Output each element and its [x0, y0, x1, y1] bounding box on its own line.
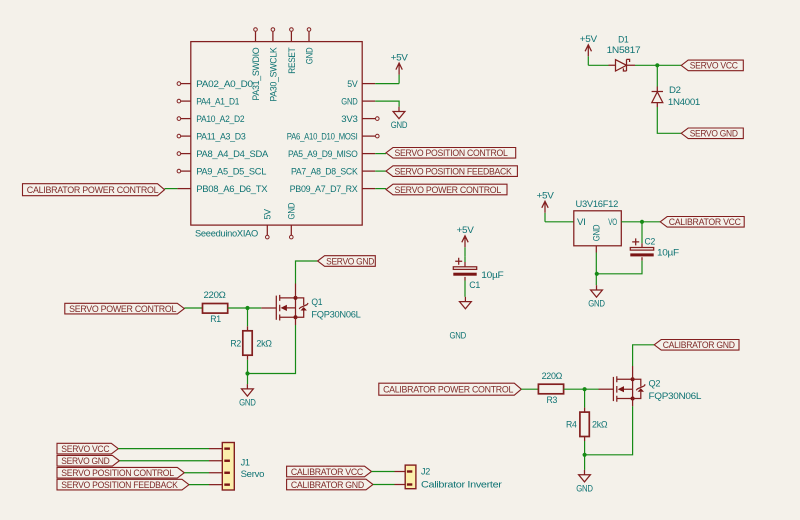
pin 3V3 unconnected end: [376, 117, 380, 121]
wire SERVO VCC to J1 pin 1: [118, 448, 209, 450]
svg-text:CALIBRATOR VCC: CALIBRATOR VCC: [291, 467, 364, 477]
pin PA02_A0_D0 unconnected end: [177, 82, 181, 86]
diode D1 1N5817 (schottky): [609, 59, 636, 71]
svg-text:GND: GND: [449, 330, 466, 341]
pin PA30_SWCLK stub (top): [272, 32, 274, 42]
wire C2 bottom to GND net: [596, 261, 642, 274]
svg-text:VI: VI: [577, 217, 586, 228]
global label CALIBRATOR POWER CONTROL (Q2): [379, 383, 522, 395]
svg-text:Q2: Q2: [649, 378, 661, 389]
transistor Q1 FQP30N06L: [276, 295, 308, 321]
svg-text:Servo: Servo: [241, 469, 265, 480]
pin C2 bottom stub: [641, 257, 643, 260]
svg-text:+5V: +5V: [391, 52, 409, 63]
svg-text:1N4001: 1N4001: [668, 97, 700, 108]
wire label to PB08 pin: [165, 188, 178, 190]
wire SCK pin to label: [375, 170, 386, 172]
pin R4 top stub: [584, 408, 586, 413]
svg-text:PA6_A10_D10_MOSI: PA6_A10_D10_MOSI: [287, 132, 358, 143]
svg-text:PA4_A1_D1: PA4_A1_D1: [196, 97, 239, 108]
svg-text:PB09_A7_D7_RX: PB09_A7_D7_RX: [290, 184, 359, 195]
pin Q1 gate stub: [261, 307, 276, 309]
svg-text:SERVO GND: SERVO GND: [690, 129, 739, 139]
svg-text:SERVO POSITION FEEDBACK: SERVO POSITION FEEDBACK: [395, 166, 513, 176]
global label SERVO POWER CONTROL (micro): [386, 184, 507, 195]
svg-text:2kΩ: 2kΩ: [592, 420, 607, 431]
pin J1-2 number: [224, 460, 230, 462]
capacitor C1 10uF: [453, 258, 476, 276]
svg-text:SERVO GND: SERVO GND: [61, 456, 110, 466]
svg-text:5V: 5V: [347, 79, 358, 90]
svg-text:2kΩ: 2kΩ: [256, 338, 271, 349]
svg-text:R3: R3: [547, 395, 558, 406]
svg-text:RESET: RESET: [287, 47, 298, 73]
svg-text:SERVO POSITION CONTROL: SERVO POSITION CONTROL: [61, 468, 174, 478]
svg-text:220Ω: 220Ω: [204, 290, 226, 301]
svg-text:PA5_A9_D9_MISO: PA5_A9_D9_MISO: [288, 149, 358, 160]
resistor R1 220ohm: [203, 304, 228, 314]
svg-text:GND: GND: [287, 203, 298, 220]
wire R1 to Q1 gate: [228, 307, 262, 309]
svg-text:GND: GND: [341, 97, 357, 108]
pin Q1 source stub: [295, 317, 297, 325]
power GND (Q1): [239, 384, 256, 408]
pin GND stub (bottom): [290, 225, 292, 235]
pin 5V stub (bottom): [266, 225, 268, 235]
junction at D2 top: [655, 63, 659, 67]
pin J2-1 number: [407, 470, 412, 472]
wire junction to R2: [247, 308, 249, 326]
svg-text:10µF: 10µF: [481, 270, 504, 281]
global label CALIBRATOR VCC (J2): [287, 466, 372, 477]
wire D1 cathode to SERVO VCC: [635, 64, 681, 66]
global label CALIBRATOR VCC (regulator): [660, 217, 744, 228]
pin PA02_A0_D0 stub: [181, 83, 191, 85]
pin R2 top stub: [247, 326, 249, 331]
wire label to R1: [184, 307, 202, 309]
svg-text:GND: GND: [592, 224, 603, 241]
pin PA10_A2_D2 unconnected end: [177, 117, 181, 121]
regulator U3 body: [574, 211, 622, 246]
power +5V (micro): [391, 52, 409, 83]
pin PA6_A10_D10_MOSI stub: [362, 135, 375, 137]
global label SERVO GND (Q1): [318, 256, 376, 267]
global label SERVO POWER CONTROL (Q1): [65, 303, 185, 314]
pin Q1 drain stub: [295, 284, 297, 298]
connector J2 body: [405, 465, 416, 489]
junction at Q2 source/R4/GND: [583, 453, 587, 457]
svg-text:GND: GND: [304, 47, 315, 64]
global label SERVO POSITION FEEDBACK (J1): [57, 479, 189, 490]
capacitor C2 10uF: [630, 238, 653, 256]
svg-text:D2: D2: [669, 85, 681, 96]
svg-text:SERVO VCC: SERVO VCC: [690, 61, 739, 71]
pin PA10_A2_D2 stub: [181, 118, 191, 120]
svg-text:CALIBRATOR GND: CALIBRATOR GND: [663, 340, 736, 350]
svg-text:SERVO POSITION CONTROL: SERVO POSITION CONTROL: [395, 148, 508, 158]
pin PA30_SWCLK unconnected end: [271, 28, 275, 32]
wire +5V to C1: [464, 256, 466, 262]
wire RX pin to label: [375, 188, 386, 190]
svg-text:SERVO POSITION FEEDBACK: SERVO POSITION FEEDBACK: [61, 480, 178, 490]
svg-text:PA7_A8_D8_SCK: PA7_A8_D8_SCK: [291, 167, 358, 178]
global label SERVO GND (J1): [57, 455, 119, 466]
wire regulator GND down: [595, 253, 597, 286]
global label CALIBRATOR GND (Q2): [654, 340, 739, 351]
pin GND stub (top): [308, 32, 310, 42]
pin Q2 gate stub: [599, 388, 614, 390]
power GND (Q2): [576, 470, 593, 494]
svg-text:GND: GND: [576, 483, 593, 494]
power +5V (servo diode): [580, 34, 598, 65]
wire Q2 source to GND net: [585, 406, 633, 455]
pin R4 bottom stub: [584, 437, 586, 442]
wire Q1 source to GND net: [248, 325, 296, 374]
svg-text:PA9_A5_D5_SCL: PA9_A5_D5_SCL: [196, 167, 267, 178]
pin J2-1 stub: [395, 471, 406, 473]
global label SERVO POSITION CONTROL (J1): [57, 467, 184, 478]
pin Q2 source stub: [632, 399, 634, 407]
svg-text:+5V: +5V: [537, 191, 555, 202]
resistor R3 220ohm: [538, 384, 563, 394]
svg-text:SERVO VCC: SERVO VCC: [61, 444, 110, 454]
power +5V (C1): [457, 225, 475, 256]
pin PA6_A10_D10_MOSI unconnected end: [376, 134, 380, 138]
pin J1-1 stub: [209, 448, 222, 450]
svg-text:SERVO POWER CONTROL: SERVO POWER CONTROL: [395, 185, 502, 195]
svg-text:U3V16F12: U3V16F12: [576, 199, 619, 210]
svg-text:GND: GND: [239, 398, 256, 409]
wire +5V to VI: [545, 221, 574, 223]
connector J1 body: [222, 443, 234, 491]
wire MISO pin to label: [375, 153, 386, 155]
svg-text:CALIBRATOR POWER CONTROL: CALIBRATOR POWER CONTROL: [27, 185, 159, 195]
wire SERVO POSITION CONTROL to J1 pin 3: [184, 472, 209, 474]
svg-text:SERVO POWER CONTROL: SERVO POWER CONTROL: [69, 304, 176, 314]
svg-text:PA10_A2_D2: PA10_A2_D2: [196, 114, 244, 125]
pin C2 top stub: [641, 243, 643, 247]
pin GND unconnected end: [290, 235, 294, 239]
power GND (regulator): [588, 285, 605, 309]
pin PA4_A1_D1 stub: [181, 100, 191, 102]
svg-text:FQP30N06L: FQP30N06L: [649, 391, 703, 402]
svg-text:GND: GND: [391, 120, 408, 131]
svg-text:1N5817: 1N5817: [607, 45, 641, 56]
pin RESET unconnected end: [290, 28, 294, 32]
svg-text:FQP30N06L: FQP30N06L: [311, 310, 361, 321]
junction at R4 top: [583, 387, 587, 391]
svg-text:Calibrator Inverter: Calibrator Inverter: [421, 480, 503, 491]
wire VO to CALIBRATOR VCC: [621, 221, 660, 223]
wire D2 anode to SERVO GND: [657, 107, 681, 133]
svg-text:J1: J1: [241, 457, 250, 468]
junction at Q1 source/R2/GND: [245, 371, 249, 375]
pin J2-2 number: [407, 483, 412, 485]
svg-text:R1: R1: [210, 314, 221, 325]
global label SERVO GND (diode): [681, 128, 743, 139]
pin GND unconnected end: [307, 28, 311, 32]
global label SERVO VCC (J1): [57, 443, 118, 454]
svg-text:CALIBRATOR VCC: CALIBRATOR VCC: [669, 217, 742, 227]
junction at regulator GND: [595, 272, 599, 276]
svg-text:3V3: 3V3: [341, 114, 357, 125]
global label SERVO VCC (diode): [681, 60, 743, 71]
wire +5V to D1 anode: [588, 64, 608, 66]
pin PA11_A3_D3 unconnected end: [177, 134, 181, 138]
pin PB09_A7_D7_RX stub: [362, 188, 375, 190]
wire SERVO GND to J1 pin 2: [119, 460, 209, 462]
svg-text:5V: 5V: [263, 208, 274, 219]
svg-text:PB08_A6_D6_TX: PB08_A6_D6_TX: [196, 184, 268, 195]
wire GND pin to GND: [375, 101, 399, 107]
pin J1-2 stub: [209, 460, 222, 462]
svg-text:VO: VO: [608, 217, 617, 228]
svg-text:CALIBRATOR GND: CALIBRATOR GND: [291, 480, 365, 490]
global label CALIBRATOR GND (J2): [287, 479, 373, 490]
pin PA8_A4_D4_SDA stub: [181, 153, 191, 155]
svg-text:PA8_A4_D4_SDA: PA8_A4_D4_SDA: [196, 149, 269, 160]
resistor R4 2kohm: [580, 412, 589, 436]
wire 5V pin to +5V: [375, 83, 399, 85]
junction at C2 top: [640, 220, 644, 224]
svg-text:10µF: 10µF: [657, 248, 679, 259]
global label CALIBRATOR POWER CONTROL (micro): [23, 184, 165, 196]
wire SERVO POSITION FEEDBACK to J1 pin 4: [189, 484, 209, 486]
wire CALIBRATOR GND to J2 pin 2: [373, 484, 395, 486]
power +5V (regulator): [537, 191, 555, 222]
pin 3V3 stub: [362, 118, 375, 120]
pin PA5_A9_D9_MISO stub: [362, 153, 375, 155]
pin PA8_A4_D4_SDA unconnected end: [177, 152, 181, 156]
diode D2 1N4001: [652, 87, 663, 108]
svg-text:R4: R4: [566, 420, 577, 431]
junction at R2 top: [245, 306, 249, 310]
svg-text:PA31_SWDIO: PA31_SWDIO: [251, 48, 262, 101]
transistor Q2 FQP30N06L: [613, 376, 645, 402]
pin PA31_SWDIO stub (top): [255, 32, 257, 42]
pin PA11_A3_D3 stub: [181, 135, 191, 137]
pin J1-1 number: [224, 447, 230, 449]
wire CALIBRATOR VCC to J2 pin 1: [372, 471, 395, 473]
svg-text:SeeeduinoXIAO: SeeeduinoXIAO: [195, 228, 258, 239]
resistor R2 2kohm: [243, 331, 252, 355]
pin J1-3 number: [224, 472, 230, 474]
svg-text:C1: C1: [469, 280, 480, 291]
svg-text:CALIBRATOR POWER CONTROL: CALIBRATOR POWER CONTROL: [383, 385, 513, 395]
pin 5V unconnected end: [266, 235, 270, 239]
pin J1-4 stub: [209, 484, 222, 486]
pin PA9_A5_D5_SCL stub: [181, 170, 191, 172]
pin RESET stub (top): [290, 32, 292, 42]
wire R3 to Q2 gate: [564, 388, 599, 390]
svg-text:PA11_A3_D3: PA11_A3_D3: [196, 132, 245, 143]
pin J2-2 stub: [395, 484, 406, 486]
pin PA4_A1_D1 unconnected end: [177, 99, 181, 103]
IC U1 SeeeduinoXIAO body: [191, 42, 362, 226]
svg-text:PA30_SWCLK: PA30_SWCLK: [268, 47, 279, 102]
svg-text:+5V: +5V: [457, 225, 475, 236]
svg-text:SERVO GND: SERVO GND: [326, 256, 375, 266]
svg-text:220Ω: 220Ω: [542, 371, 563, 382]
svg-text:J2: J2: [421, 466, 430, 477]
wire R4 to GND: [584, 441, 586, 470]
wire R2 to GND: [247, 360, 249, 384]
wire Q1 drain to SERVO GND: [296, 261, 318, 284]
global label SERVO POSITION CONTROL (micro): [386, 148, 516, 159]
pin PB08_A6_D6_TX stub: [177, 188, 190, 190]
pin PA7_A8_D8_SCK stub: [362, 170, 375, 172]
global label SERVO POSITION FEEDBACK (micro): [386, 166, 517, 177]
svg-text:C2: C2: [645, 236, 656, 247]
wire C1 bottom to GND: [464, 281, 466, 297]
svg-text:PA02_A0_D0: PA02_A0_D0: [196, 79, 253, 90]
wire junction down to D2: [656, 65, 658, 86]
svg-text:GND: GND: [588, 299, 605, 310]
pin Q2 drain stub: [632, 366, 634, 379]
pin 5V stub: [362, 83, 375, 85]
pin C1 top stub: [464, 262, 466, 267]
pin PA9_A5_D5_SCL unconnected end: [177, 169, 181, 173]
pin R2 bottom stub: [247, 355, 249, 360]
pin J1-4 number: [224, 483, 230, 485]
pin PA31_SWDIO unconnected end: [254, 28, 258, 32]
pin GND stub (regulator): [595, 246, 597, 253]
power GND (micro): [391, 107, 408, 131]
pin C1 bottom stub: [464, 277, 466, 281]
pin J1-3 stub: [209, 472, 222, 474]
svg-text:D1: D1: [618, 35, 628, 46]
svg-text:R2: R2: [230, 338, 241, 349]
svg-text:+5V: +5V: [580, 34, 598, 45]
wire junction to R4: [584, 389, 586, 407]
pin GND stub: [362, 100, 375, 102]
svg-text:Q1: Q1: [311, 297, 322, 308]
wire label to R3: [521, 388, 538, 390]
wire Q2 drain to CALIBRATOR GND: [633, 345, 655, 366]
power GND (C1): [449, 297, 471, 342]
wire junction down to C2: [641, 222, 643, 244]
